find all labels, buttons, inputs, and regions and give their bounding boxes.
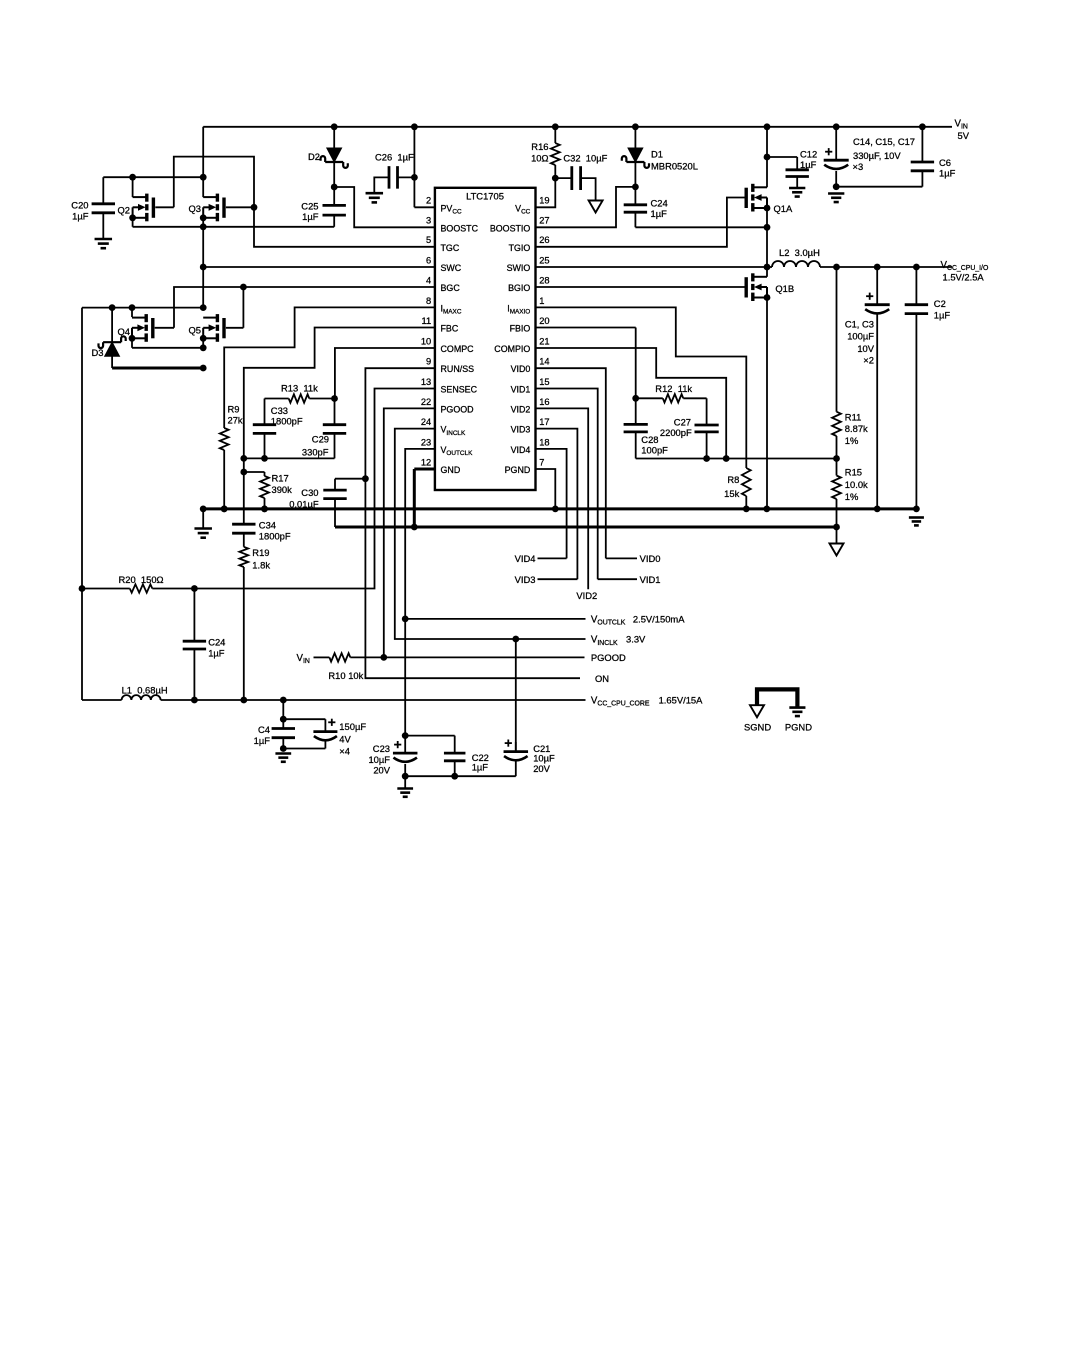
svg-text:1800pF: 1800pF bbox=[259, 531, 291, 542]
svg-text:1.5V/2.5A: 1.5V/2.5A bbox=[943, 272, 985, 283]
svg-text:C30: C30 bbox=[301, 487, 318, 498]
capacitor C20 bbox=[71, 199, 115, 239]
node ON label bbox=[595, 673, 609, 684]
svg-text:BGC: BGC bbox=[441, 283, 461, 293]
wire: Q1B drain/source leads bbox=[766, 267, 768, 509]
svg-text:SWC: SWC bbox=[441, 263, 462, 273]
svg-text:TGIO: TGIO bbox=[509, 243, 531, 253]
svg-text:10.0k: 10.0k bbox=[845, 479, 868, 490]
ground (C14) bbox=[828, 194, 844, 203]
svg-text:C32 10µF: C32 10µF bbox=[563, 153, 607, 164]
wire/node VID4 bbox=[515, 449, 567, 564]
transistor Q4 bbox=[118, 314, 153, 342]
svg-text:C24: C24 bbox=[208, 637, 225, 648]
wire: IMAXIO net (pin 1 to R8) bbox=[536, 307, 747, 509]
ground (rail left end) bbox=[194, 529, 212, 538]
resistor R11 bbox=[832, 267, 868, 459]
svg-text:27k: 27k bbox=[228, 415, 243, 426]
svg-text:C27: C27 bbox=[674, 416, 691, 427]
svg-text:VID1: VID1 bbox=[640, 574, 661, 585]
svg-text:10Ω: 10Ω bbox=[531, 153, 548, 164]
ground (C12) bbox=[789, 188, 805, 197]
transistor Q1B bbox=[746, 273, 794, 301]
svg-text:16: 16 bbox=[539, 397, 549, 407]
svg-text:1µF: 1µF bbox=[254, 735, 271, 746]
svg-text:SGND: SGND bbox=[744, 722, 771, 733]
svg-text:C26 1µF: C26 1µF bbox=[375, 152, 414, 163]
svg-text:15k: 15k bbox=[724, 488, 739, 499]
svg-text:VID4: VID4 bbox=[511, 445, 531, 455]
svg-text:FBC: FBC bbox=[441, 324, 459, 334]
resistor R15 bbox=[832, 459, 868, 528]
svg-text:28: 28 bbox=[539, 275, 549, 285]
svg-text:D2: D2 bbox=[308, 151, 320, 162]
svg-text:Q1A: Q1A bbox=[774, 203, 794, 214]
svg-text:×3: ×3 bbox=[853, 161, 864, 172]
svg-text:Q4: Q4 bbox=[118, 326, 131, 337]
wire: R17 leads bbox=[244, 472, 268, 512]
svg-text:BOOSTIO: BOOSTIO bbox=[490, 223, 531, 233]
resistor R16 bbox=[531, 141, 560, 165]
svg-text:VID3: VID3 bbox=[511, 425, 531, 435]
wire: output cap ground row bbox=[402, 764, 516, 789]
svg-text:GND: GND bbox=[441, 465, 461, 475]
svg-text:4: 4 bbox=[426, 275, 431, 285]
capacitor C25 bbox=[301, 200, 346, 227]
wire: Q1A drain C12 branch bbox=[764, 154, 798, 170]
svg-text:R13 11k: R13 11k bbox=[281, 383, 318, 394]
svg-text:FBIO: FBIO bbox=[510, 324, 531, 334]
wire: SGND-PGND tie bracket bbox=[757, 689, 797, 707]
wire: IMAXC net (pin 8 to R9) bbox=[221, 307, 435, 512]
svg-text:MBR0520L: MBR0520L bbox=[651, 160, 698, 171]
wire: FBC net (pin 11 to C33/C29 node, R17, C34) bbox=[240, 328, 434, 525]
svg-text:20V: 20V bbox=[373, 764, 390, 775]
svg-text:C24: C24 bbox=[651, 197, 668, 208]
svg-text:1µF: 1µF bbox=[72, 210, 89, 221]
wire: BGC net (Q4/Q5 gates to pin 4) bbox=[155, 284, 435, 328]
resistor R17 bbox=[260, 473, 292, 498]
svg-text:LTC1705: LTC1705 bbox=[466, 191, 504, 202]
svg-text:C33: C33 bbox=[271, 405, 288, 416]
svg-text:VID1: VID1 bbox=[511, 385, 531, 395]
wire: TGIO net (pin 26 to Q1A gate) bbox=[536, 198, 745, 247]
svg-text:3: 3 bbox=[426, 216, 431, 226]
svg-text:8.87k: 8.87k bbox=[845, 423, 868, 434]
wire: VIN 5V rail and branches bbox=[103, 123, 952, 207]
capacitor C34 bbox=[232, 520, 291, 542]
node PGOOD label bbox=[591, 652, 626, 663]
ground SGND symbol bbox=[744, 705, 771, 732]
diode D1 bbox=[622, 148, 698, 171]
svg-text:7: 7 bbox=[539, 457, 544, 467]
svg-text:Q2: Q2 bbox=[118, 205, 131, 216]
svg-text:BGIO: BGIO bbox=[508, 283, 530, 293]
svg-text:R19: R19 bbox=[252, 547, 269, 558]
wire: VINCLK net (pin 24, C21, VINCLK row) bbox=[395, 429, 586, 752]
svg-text:R16: R16 bbox=[531, 141, 548, 152]
capacitor C21 bbox=[504, 740, 555, 777]
svg-text:L1 0.68µH: L1 0.68µH bbox=[122, 685, 168, 696]
svg-text:10µF: 10µF bbox=[368, 754, 390, 765]
svg-text:×2: ×2 bbox=[863, 355, 874, 366]
inductor L1 bbox=[122, 685, 168, 700]
capacitor C30 bbox=[289, 487, 346, 509]
wire: PVCC net (pin 2 to 5V, C26 bypass) bbox=[374, 174, 435, 207]
wire: COMPC net (pin 10 to R13/C29) bbox=[335, 348, 435, 399]
wire: VCC pin 19 net (R16, C32) bbox=[536, 165, 596, 207]
svg-text:PGOOD: PGOOD bbox=[591, 652, 626, 663]
svg-text:14: 14 bbox=[539, 357, 549, 367]
wire: BOOSTIO net (pin 27, D1, C24) bbox=[536, 162, 768, 227]
svg-text:×4: ×4 bbox=[339, 745, 350, 756]
svg-text:21: 21 bbox=[539, 336, 549, 346]
svg-text:VID0: VID0 bbox=[511, 364, 531, 374]
svg-text:1.8k: 1.8k bbox=[252, 560, 270, 571]
wire: Q4/Q5 source row bbox=[132, 338, 207, 351]
capacitor C26 bbox=[375, 152, 414, 189]
resistor R8 bbox=[724, 468, 751, 499]
svg-text:R12 11k: R12 11k bbox=[655, 383, 692, 394]
capacitor C24 (sense filter) bbox=[183, 589, 226, 701]
wire: signal ground (pin 12 GND, C30, R15, SGND) bbox=[335, 469, 840, 544]
capacitor C2 bbox=[905, 267, 951, 509]
wire: C34/R19 link to VCC_CPU_CORE bbox=[240, 533, 247, 703]
svg-text:C1, C3: C1, C3 bbox=[845, 318, 874, 329]
svg-text:5V: 5V bbox=[958, 130, 970, 141]
svg-text:10: 10 bbox=[421, 336, 431, 346]
svg-text:VID0: VID0 bbox=[640, 553, 661, 564]
capacitor C32 bbox=[563, 153, 607, 191]
svg-text:C4: C4 bbox=[258, 724, 270, 735]
capacitor C33 bbox=[253, 405, 303, 459]
wire/node VID0 bbox=[536, 368, 661, 564]
capacitor C12 bbox=[786, 148, 818, 188]
IC U1 LTC1705 bbox=[421, 188, 550, 490]
svg-text:PGND: PGND bbox=[505, 465, 531, 475]
ground (C26) bbox=[366, 193, 384, 202]
resistor R9 bbox=[220, 404, 243, 451]
svg-text:330µF, 10V: 330µF, 10V bbox=[853, 150, 901, 161]
svg-text:1%: 1% bbox=[845, 491, 859, 502]
svg-text:VID4: VID4 bbox=[515, 553, 536, 564]
svg-text:1µF: 1µF bbox=[800, 159, 817, 170]
transistor Q3 bbox=[189, 194, 225, 222]
wire: VCC_CPU_CORE output row bbox=[82, 697, 586, 704]
svg-text:Q1B: Q1B bbox=[775, 283, 794, 294]
svg-text:1µF: 1µF bbox=[472, 761, 489, 772]
capacitor C28 bbox=[624, 424, 669, 455]
svg-text:VID2: VID2 bbox=[511, 404, 531, 414]
svg-text:R17: R17 bbox=[272, 473, 289, 484]
svg-text:SENSEC: SENSEC bbox=[441, 385, 478, 395]
wire/node VID1 bbox=[536, 389, 661, 586]
wire: PGND power ground rail bbox=[200, 506, 920, 529]
svg-text:1%: 1% bbox=[845, 435, 859, 446]
svg-text:VID3: VID3 bbox=[515, 574, 536, 585]
ground (C20) bbox=[95, 239, 113, 248]
capacitor C29 bbox=[302, 399, 346, 458]
svg-text:18: 18 bbox=[539, 437, 549, 447]
transistor Q5 bbox=[189, 314, 225, 342]
capacitor C14 C15 C17 bbox=[824, 136, 915, 172]
svg-text:4V: 4V bbox=[339, 733, 351, 744]
svg-text:10µF: 10µF bbox=[533, 753, 555, 764]
svg-text:R11: R11 bbox=[845, 412, 862, 423]
wire: PGOOD net (pin 22, R10 pullup, PGOOD row) bbox=[314, 408, 585, 660]
resistor R20 bbox=[119, 574, 164, 593]
wire: C14/C6 bottom node bbox=[833, 171, 923, 190]
wire/node VID3 bbox=[515, 429, 578, 585]
svg-text:5: 5 bbox=[426, 235, 431, 245]
wire: COMPIO net (pin 21 to feedback node) bbox=[536, 348, 727, 459]
wire: SWIO net / VCC_CPU_IO output row bbox=[536, 208, 953, 270]
svg-text:2.5V/150mA: 2.5V/150mA bbox=[633, 613, 685, 624]
svg-text:C34: C34 bbox=[259, 520, 276, 531]
ground (C23) bbox=[397, 789, 413, 797]
inductor L2 bbox=[772, 247, 820, 267]
capacitor C22 bbox=[444, 752, 489, 776]
svg-text:17: 17 bbox=[539, 417, 549, 427]
svg-text:D1: D1 bbox=[651, 149, 663, 160]
wire: SENSEC net (pin 13, R20 row) bbox=[82, 389, 435, 592]
svg-text:100pF: 100pF bbox=[641, 444, 668, 455]
svg-text:9: 9 bbox=[426, 357, 431, 367]
wire: PGND pin 7 bbox=[536, 469, 556, 509]
svg-text:1: 1 bbox=[539, 296, 544, 306]
svg-text:COMPC: COMPC bbox=[441, 344, 475, 354]
svg-text:12: 12 bbox=[421, 457, 431, 467]
svg-text:3.3V: 3.3V bbox=[626, 634, 646, 645]
svg-text:PGOOD: PGOOD bbox=[441, 404, 474, 414]
svg-text:1µF: 1µF bbox=[934, 309, 951, 320]
svg-text:6: 6 bbox=[426, 255, 431, 265]
wire: D3 anode to Q5 source (ground return) bbox=[112, 356, 207, 371]
wire: RUN/SS net (pin 9, C30, ON row) bbox=[335, 368, 580, 678]
svg-text:Q3: Q3 bbox=[189, 203, 202, 214]
svg-text:R10 10k: R10 10k bbox=[328, 670, 363, 681]
svg-text:10V: 10V bbox=[857, 343, 874, 354]
svg-text:27: 27 bbox=[539, 216, 549, 226]
resistor R10 bbox=[328, 653, 363, 681]
svg-text:C25: C25 bbox=[301, 200, 318, 211]
svg-text:20V: 20V bbox=[533, 763, 550, 774]
capacitor C23 bbox=[368, 741, 417, 775]
svg-text:13: 13 bbox=[421, 377, 431, 387]
svg-text:25: 25 bbox=[539, 255, 549, 265]
svg-text:SWIO: SWIO bbox=[507, 263, 531, 273]
wire: C4/150uF bank bbox=[280, 700, 326, 752]
svg-text:24: 24 bbox=[421, 417, 431, 427]
svg-text:C28: C28 bbox=[641, 434, 658, 445]
svg-text:R8: R8 bbox=[727, 474, 739, 485]
ground PGND symbol bbox=[785, 708, 812, 733]
diode D3 bbox=[92, 336, 126, 358]
capacitor C27 bbox=[660, 398, 719, 458]
wire: TGC net (Q2/Q3 gates to pin 5) bbox=[155, 157, 435, 247]
svg-text:VID2: VID2 bbox=[576, 590, 597, 601]
svg-text:C6: C6 bbox=[939, 157, 951, 168]
svg-text:8: 8 bbox=[426, 296, 431, 306]
resistor R13 bbox=[281, 383, 318, 403]
svg-text:1µF: 1µF bbox=[651, 208, 668, 219]
ground SGND triangle (R15/AGND) bbox=[830, 544, 844, 556]
transistor Q2 bbox=[118, 194, 154, 222]
capacitor C1 C3 bbox=[845, 267, 890, 509]
svg-text:C2: C2 bbox=[934, 298, 946, 309]
svg-text:11: 11 bbox=[422, 316, 432, 326]
svg-text:15: 15 bbox=[539, 377, 549, 387]
wire/node VID2 bbox=[536, 408, 598, 601]
svg-text:330pF: 330pF bbox=[302, 447, 329, 458]
ground (rail right end) bbox=[909, 518, 924, 526]
node VIN 5V label bbox=[955, 118, 970, 141]
svg-text:PGND: PGND bbox=[785, 722, 812, 733]
svg-text:C12: C12 bbox=[800, 148, 817, 159]
svg-text:1µF: 1µF bbox=[302, 211, 319, 222]
svg-text:L2 3.0µH: L2 3.0µH bbox=[779, 247, 820, 258]
svg-text:1µF: 1µF bbox=[208, 648, 225, 659]
svg-text:C14, C15, C17: C14, C15, C17 bbox=[853, 136, 915, 147]
svg-text:ON: ON bbox=[595, 673, 609, 684]
svg-text:390k: 390k bbox=[272, 484, 293, 495]
svg-text:COMPIO: COMPIO bbox=[494, 344, 530, 354]
svg-text:1800pF: 1800pF bbox=[271, 416, 303, 427]
svg-text:100µF: 100µF bbox=[847, 331, 874, 342]
svg-text:D3: D3 bbox=[92, 347, 104, 358]
svg-text:1.65V/15A: 1.65V/15A bbox=[659, 694, 704, 705]
svg-text:2200pF: 2200pF bbox=[660, 427, 692, 438]
wire: SWC net (Q2/Q3 sources, Q4/Q5 drains, D3 cathode, L1/R20 left) bbox=[79, 218, 435, 700]
diode D2 bbox=[308, 148, 348, 168]
resistor R12 bbox=[636, 383, 707, 403]
wire: FBC compensation bottom row bbox=[244, 433, 335, 461]
wire: BOOSTC net (D2 cathode, C25 top to pin 3) bbox=[331, 162, 435, 227]
ground SGND triangle (C32) bbox=[589, 201, 603, 213]
svg-text:20: 20 bbox=[539, 316, 549, 326]
node VOUTCLK label bbox=[591, 613, 685, 626]
capacitor C6 bbox=[911, 157, 956, 178]
node VIN label (R10) bbox=[297, 653, 310, 665]
node VCC_CPU_IO label bbox=[941, 260, 989, 283]
capacitor C4 bbox=[254, 724, 295, 746]
wire: BGIO net (pin 28 to Q1B gate) bbox=[536, 286, 747, 288]
wire: FBIO net and feedback node row bbox=[536, 328, 840, 462]
svg-text:C29: C29 bbox=[312, 434, 329, 445]
svg-text:1µF: 1µF bbox=[939, 167, 956, 178]
wire: R13/C33 top link bbox=[265, 395, 338, 425]
node VCC_CPU_CORE label bbox=[591, 694, 703, 707]
svg-text:Q5: Q5 bbox=[189, 324, 202, 335]
svg-text:R9: R9 bbox=[228, 404, 240, 415]
svg-text:26: 26 bbox=[539, 235, 549, 245]
svg-text:BOOSTC: BOOSTC bbox=[441, 223, 479, 233]
resistor R19 bbox=[239, 547, 270, 571]
svg-text:23: 23 bbox=[421, 437, 431, 447]
ground (C4) bbox=[275, 754, 291, 762]
svg-text:RUN/SS: RUN/SS bbox=[441, 364, 475, 374]
svg-text:C20: C20 bbox=[71, 199, 88, 210]
svg-text:2: 2 bbox=[426, 196, 431, 206]
capacitor C24 bbox=[624, 197, 668, 219]
transistor Q1A bbox=[746, 184, 793, 214]
svg-text:C23: C23 bbox=[373, 743, 390, 754]
svg-text:R15: R15 bbox=[845, 467, 862, 478]
svg-text:19: 19 bbox=[539, 196, 549, 206]
svg-text:TGC: TGC bbox=[441, 243, 460, 253]
svg-text:22: 22 bbox=[421, 397, 431, 407]
svg-text:R20 150Ω: R20 150Ω bbox=[119, 574, 164, 585]
node VINCLK label bbox=[591, 634, 646, 647]
wire: VOUTCLK net (pin 23, C23/C22, VOUTCLK row) bbox=[402, 449, 586, 753]
svg-text:150µF: 150µF bbox=[339, 721, 366, 732]
capacitor 150uF x4 bbox=[313, 719, 366, 757]
